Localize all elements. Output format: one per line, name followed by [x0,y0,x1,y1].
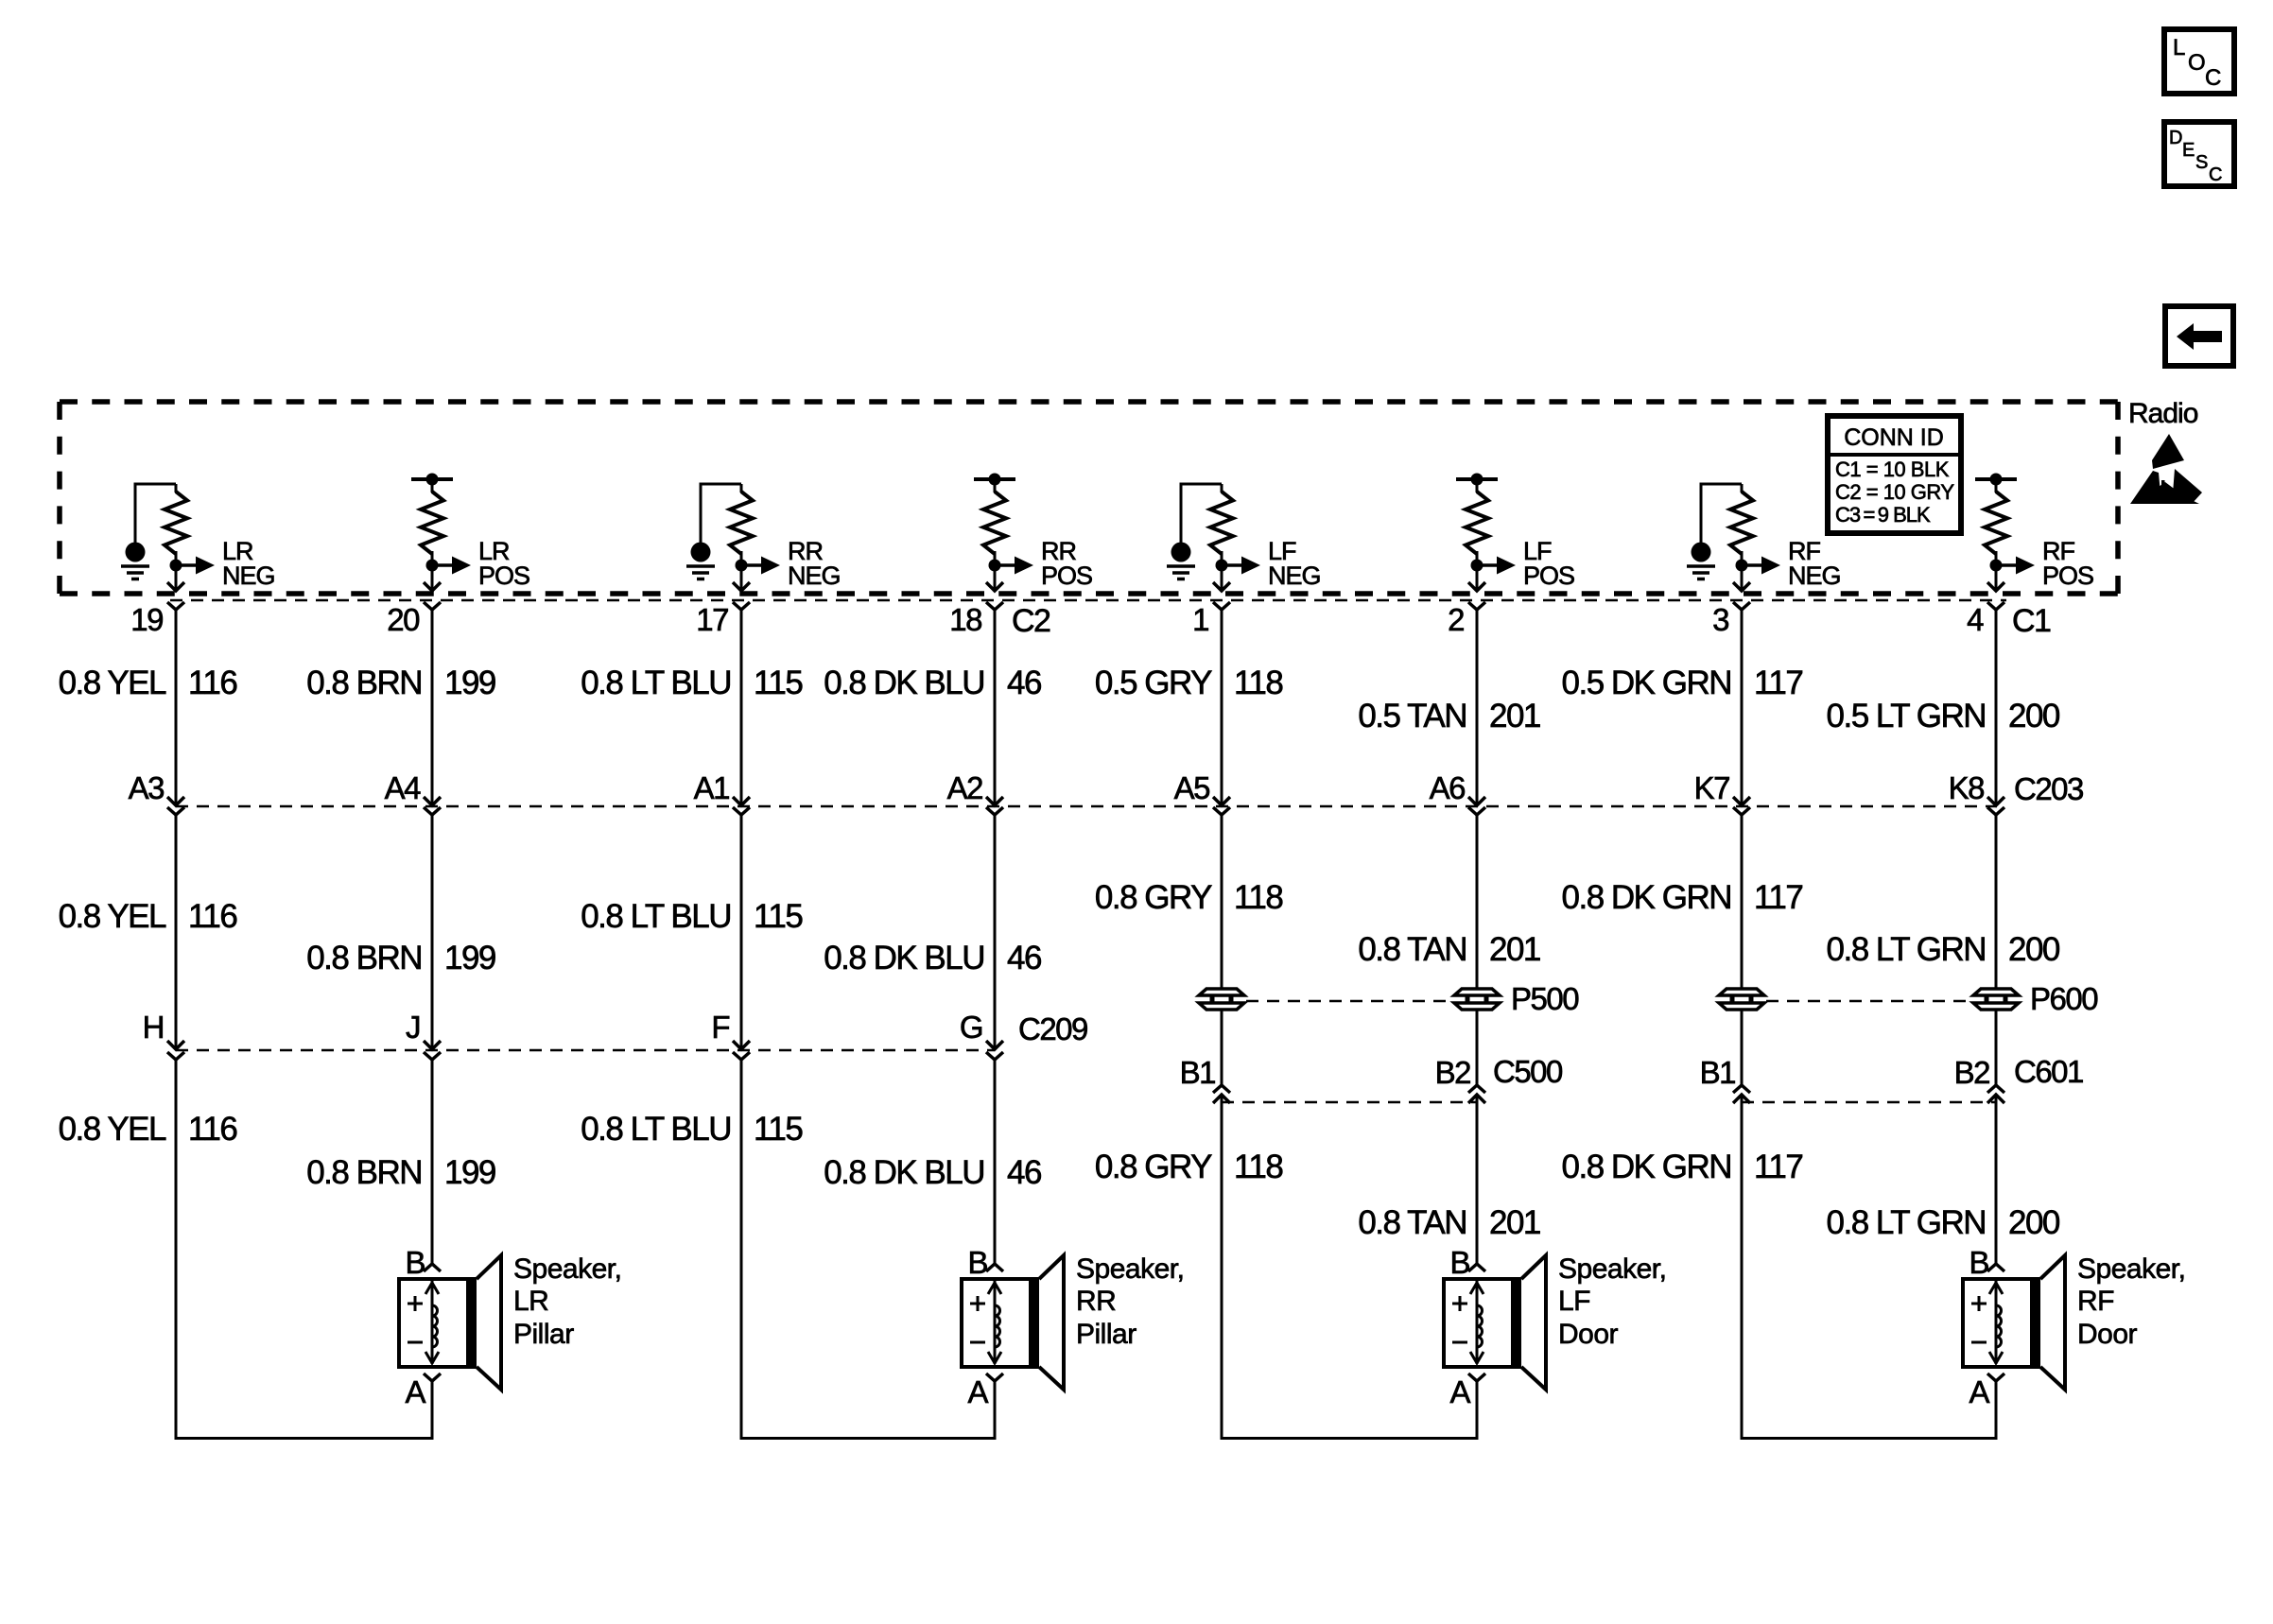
svg-text:A1: A1 [694,770,730,805]
C203 crossing pin A2 [986,797,1003,805]
svg-text:116: 116 [188,898,236,935]
junction dot LR POS [426,560,439,572]
svg-text:L: L [2173,35,2185,60]
svg-text:17: 17 [696,602,728,637]
svg-text:0.8 BRN: 0.8 BRN [306,665,422,701]
ground symbol (LR NEG) [121,484,176,579]
connector line C601 (thin dashed) [1742,1101,1996,1104]
C203 crossing pin A6 [1468,797,1485,805]
resistor LF POS (radio internal) [1466,492,1488,554]
wire segment circuit 118 (radio to C203) [1221,610,1223,804]
svg-text:Door: Door [2077,1319,2138,1350]
inline connector barrel on circuit 201 [1454,989,1500,1010]
wire segment circuit 199 (C203 to C209) [431,815,434,1047]
wire segment circuit 117 (C500/C601 to speaker) [1741,1095,1744,1440]
svg-text:B: B [967,1245,987,1280]
svg-text:0.8 YEL: 0.8 YEL [59,665,166,701]
resistor LF NEG (radio internal) [1210,492,1233,554]
resistor RR POS (radio internal) [983,492,1006,554]
svg-text:2: 2 [1448,602,1464,637]
svg-text:A6: A6 [1430,770,1466,805]
svg-text:200: 200 [2008,698,2060,734]
svg-text:C2 = 10 GRY: C2 = 10 GRY [1835,480,1954,504]
svg-text:B1: B1 [1180,1055,1216,1090]
wire segment circuit 118 (C500/C601 to speaker) [1221,1095,1223,1440]
svg-text:H: H [143,1010,164,1045]
svg-text:46: 46 [1007,665,1041,701]
svg-text:B: B [405,1245,425,1280]
resistor RR NEG (radio internal) [730,492,753,554]
svg-text:C2: C2 [1012,603,1050,639]
signal arrow LR POS [432,563,454,567]
C209 crossing pin H [167,1041,184,1049]
svg-text:0.5 DK GRN: 0.5 DK GRN [1562,665,1732,701]
resistor RF POS (radio internal) [1985,492,2007,554]
wire segment circuit 201 (radio to C203) [1476,610,1479,804]
svg-text:1: 1 [1192,602,1208,637]
wire segment circuit 46 (radio to C203) [994,610,997,804]
svg-text:RF: RF [2077,1286,2114,1317]
svg-text:0.8 DK BLU: 0.8 DK BLU [824,940,984,976]
svg-text:C500: C500 [1493,1054,1563,1089]
Radio component dashed box [60,402,2118,594]
svg-text:117: 117 [1754,879,1802,916]
connector pin 18 fork [986,602,1003,610]
resistor LR POS (radio internal) [421,492,443,554]
svg-text:Door: Door [1558,1319,1619,1350]
svg-text:0.8 DK BLU: 0.8 DK BLU [824,1154,984,1191]
signal arrow LF POS [1477,563,1499,567]
wire segment circuit 116 (C209 to speaker) [175,1060,178,1440]
speaker LF Door [1444,1245,1666,1440]
wire segment circuit 200 (C500/C601 to speaker) [1995,1095,1998,1264]
svg-text:C1 = 10 BLK: C1 = 10 BLK [1835,458,1950,481]
connector pin 3 fork [1733,602,1750,610]
svg-text:0.8 LT BLU: 0.8 LT BLU [581,665,731,701]
wire segment circuit 115 (radio to C203) [740,610,743,804]
wire segment circuit 117 (C203 to P-connector) [1741,815,1744,989]
svg-text:0.5 LT GRN: 0.5 LT GRN [1827,698,1987,734]
signal arrow RR NEG [741,563,763,567]
svg-text:B1: B1 [1700,1055,1736,1090]
svg-text:199: 199 [444,1154,495,1191]
ground symbol (RR NEG) [686,484,741,579]
return wire 115 to speaker A [741,1437,995,1439]
CONN ID table [1828,416,1961,533]
svg-text:0.5 TAN: 0.5 TAN [1358,698,1466,734]
svg-text:POS: POS [478,561,529,590]
supply rail (LF POS) [1456,477,1498,481]
connector pin 20 fork [424,602,441,610]
speaker RF Door [1963,1245,2185,1440]
svg-text:F: F [711,1010,729,1045]
svg-text:46: 46 [1007,1154,1041,1191]
svg-text:E: E [2182,140,2195,161]
svg-text:A2: A2 [947,770,983,805]
connector pin 2 fork [1468,602,1485,610]
svg-text:A4: A4 [385,770,422,805]
svg-text:CONN ID: CONN ID [1844,424,1944,451]
svg-text:K8: K8 [1949,770,1985,805]
svg-text:116: 116 [188,1111,236,1148]
svg-text:201: 201 [1489,1204,1540,1241]
svg-text:D: D [2169,128,2182,148]
junction dot LF NEG [1216,560,1228,572]
wire RF NEG to pin 3 [1741,571,1744,590]
return wire 117 to speaker A [1742,1437,1996,1439]
svg-text:18: 18 [949,602,981,637]
svg-text:Pillar: Pillar [513,1319,574,1350]
svg-text:0.8 GRY: 0.8 GRY [1095,1149,1212,1185]
C203 crossing pin A5 [1213,797,1230,805]
svg-text:3: 3 [1712,602,1728,637]
svg-text:0.8 DK GRN: 0.8 DK GRN [1562,1149,1732,1185]
svg-text:NEG: NEG [1788,561,1841,590]
wire segment circuit 199 (C209 to speaker) [431,1060,434,1264]
svg-text:199: 199 [444,665,495,701]
svg-text:C: C [2209,164,2222,185]
svg-text:117: 117 [1754,665,1802,701]
wire segment circuit 117 (P-connector to C500/C601) [1741,1010,1744,1085]
svg-text:C3 = 9 BLK: C3 = 9 BLK [1835,503,1931,527]
svg-text:0.8 DK BLU: 0.8 DK BLU [824,665,984,701]
svg-text:G: G [960,1010,982,1045]
svg-text:0.8 LT GRN: 0.8 LT GRN [1827,931,1987,968]
svg-text:POS: POS [1041,561,1092,590]
svg-text:J: J [406,1010,420,1045]
connector pin 17 fork [733,602,750,610]
C209 crossing pin F [733,1041,750,1049]
svg-text:C209: C209 [1018,1011,1087,1046]
svg-text:LR: LR [513,1286,548,1317]
svg-text:Speaker,: Speaker, [1558,1253,1666,1285]
C500/C601 crossing pin B2 [1468,1085,1485,1093]
svg-text:Speaker,: Speaker, [2077,1253,2185,1285]
signal arrow LR NEG [176,563,198,567]
svg-text:200: 200 [2008,931,2060,968]
wire segment circuit 201 (P-connector to C500/C601) [1476,1010,1479,1085]
DESC legend box [2164,122,2234,186]
signal arrow RF NEG [1742,563,1763,567]
wire segment circuit 199 (radio to C203) [431,610,434,804]
C209 crossing pin J [424,1041,441,1049]
svg-text:4: 4 [1967,602,1984,637]
svg-text:200: 200 [2008,1204,2060,1241]
svg-text:0.8 BRN: 0.8 BRN [306,940,422,976]
svg-text:A: A [1449,1374,1470,1409]
svg-text:B: B [1449,1245,1469,1280]
connector pin 19 fork [167,602,184,610]
C203 crossing pin A4 [424,797,441,805]
wire segment circuit 201 (C500/C601 to speaker) [1476,1095,1479,1264]
svg-text:C1: C1 [2012,603,2051,639]
wire segment circuit 200 (P-connector to C500/C601) [1995,1010,1998,1085]
svg-text:0.8 GRY: 0.8 GRY [1095,879,1212,916]
svg-text:Pillar: Pillar [1076,1319,1136,1350]
wire segment circuit 118 (P-connector to C500/C601) [1221,1010,1223,1085]
C500/C601 crossing pin B1 [1733,1085,1750,1093]
svg-text:A3: A3 [129,770,165,805]
inline connector P600 dashed tie [1766,1000,1971,1003]
ground symbol (RF NEG) [1687,484,1742,579]
svg-text:0.8 YEL: 0.8 YEL [59,1111,166,1148]
svg-text:RR: RR [1076,1286,1116,1317]
svg-text:NEG: NEG [788,561,841,590]
supply rail (LR POS) [411,477,453,481]
junction dot LF POS [1471,560,1484,572]
svg-text:Radio: Radio [2128,398,2198,429]
connector line C203 (thin dashed) [176,805,1997,808]
svg-text:0.8 LT BLU: 0.8 LT BLU [581,898,731,935]
svg-text:115: 115 [754,898,802,935]
C209 crossing pin G [986,1041,1003,1049]
junction dot LR NEG [170,560,182,572]
resistor RF NEG (radio internal) [1730,492,1753,554]
connector pin 1 fork [1213,602,1230,610]
svg-text:0.8 LT BLU: 0.8 LT BLU [581,1111,731,1148]
junction dot RF NEG [1736,560,1748,572]
supply rail (RR POS) [974,477,1015,481]
svg-text:NEG: NEG [1268,561,1321,590]
signal arrow RR POS [995,563,1016,567]
C500/C601 crossing pin B2 [1987,1085,2004,1093]
svg-text:118: 118 [1234,1149,1282,1185]
wire RR NEG to pin 17 [740,571,743,590]
wire LR NEG to pin 19 [175,571,178,590]
svg-text:115: 115 [754,1111,802,1148]
wire segment circuit 117 (radio to C203) [1741,610,1744,804]
supply rail (RF POS) [1975,477,2017,481]
svg-text:Speaker,: Speaker, [513,1253,621,1285]
inline connector barrel on circuit 200 [1973,989,2019,1010]
svg-text:C601: C601 [2014,1054,2083,1089]
svg-text:A: A [1969,1374,1989,1409]
svg-text:0.8 LT GRN: 0.8 LT GRN [1827,1204,1987,1241]
C203 crossing pin A3 [167,797,184,805]
svg-text:B: B [1969,1245,1988,1280]
wire segment circuit 46 (C209 to speaker) [994,1060,997,1264]
svg-text:B2: B2 [1954,1055,1990,1090]
svg-text:K7: K7 [1694,770,1730,805]
svg-text:C203: C203 [2014,771,2083,806]
speaker LR Pillar [399,1245,621,1440]
svg-text:46: 46 [1007,940,1041,976]
C203 crossing pin K8 [1987,797,2004,805]
inline connector barrel on circuit 118 [1199,989,1244,1010]
svg-text:0.8 TAN: 0.8 TAN [1358,1204,1466,1241]
resistor LR NEG (radio internal) [165,492,187,554]
svg-text:C: C [2205,65,2221,91]
svg-text:201: 201 [1489,931,1540,968]
wire segment circuit 200 (radio to C203) [1995,610,1998,804]
wire segment circuit 116 (C203 to C209) [175,815,178,1047]
svg-text:Speaker,: Speaker, [1076,1253,1184,1285]
svg-text:P500: P500 [1511,981,1579,1016]
svg-text:O: O [2188,50,2206,76]
svg-text:POS: POS [1523,561,1574,590]
wire RR POS to pin 18 [994,571,997,590]
return wire 118 to speaker A [1222,1437,1477,1439]
svg-text:B2: B2 [1435,1055,1471,1090]
back-arrow navigation box [2165,306,2233,366]
junction dot RR NEG [736,560,748,572]
svg-text:0.8 TAN: 0.8 TAN [1358,931,1466,968]
speaker RR Pillar [962,1245,1184,1440]
return wire 116 to speaker A [176,1437,432,1439]
junction dot RR POS [989,560,1001,572]
signal arrow LF NEG [1222,563,1243,567]
wire RF POS to pin 4 [1995,571,1998,590]
inline connector P500 dashed tie [1246,1000,1452,1003]
svg-text:19: 19 [130,602,163,637]
svg-text:P600: P600 [2030,981,2098,1016]
svg-text:0.5 GRY: 0.5 GRY [1095,665,1212,701]
connector line C2/C1 (thin dashed) [170,599,2006,602]
LOC legend box [2164,29,2234,94]
wire segment circuit 201 (C203 to P-connector) [1476,815,1479,989]
C500/C601 crossing pin B1 [1213,1085,1230,1093]
svg-text:20: 20 [387,602,420,637]
svg-text:199: 199 [444,940,495,976]
C203 crossing pin A1 [733,797,750,805]
wire LR POS to pin 20 [431,571,434,590]
C203 crossing pin K7 [1733,797,1750,805]
svg-text:NEG: NEG [222,561,275,590]
connector pin 4 fork [1987,602,2004,610]
svg-text:118: 118 [1234,879,1282,916]
wire segment circuit 200 (C203 to P-connector) [1995,815,1998,989]
signal arrow RF POS [1996,563,2018,567]
wire LF NEG to pin 1 [1221,571,1223,590]
svg-text:POS: POS [2042,561,2093,590]
svg-text:A: A [405,1374,425,1409]
wire segment circuit 116 (radio to C203) [175,610,178,804]
svg-text:116: 116 [188,665,236,701]
inline connector barrel on circuit 117 [1719,989,1764,1010]
svg-text:201: 201 [1489,698,1540,734]
ESD sensitivity symbol [2130,434,2202,504]
svg-text:115: 115 [754,665,802,701]
ground symbol (LF NEG) [1167,484,1222,579]
svg-text:117: 117 [1754,1149,1802,1185]
svg-text:S: S [2195,152,2208,173]
wire segment circuit 46 (C203 to C209) [994,815,997,1047]
wire segment circuit 118 (C203 to P-connector) [1221,815,1223,989]
connector line C500 (thin dashed) [1222,1101,1477,1104]
svg-text:0.8 YEL: 0.8 YEL [59,898,166,935]
svg-text:LF: LF [1558,1286,1590,1317]
svg-text:0.8 DK GRN: 0.8 DK GRN [1562,879,1732,916]
svg-text:118: 118 [1234,665,1282,701]
svg-text:A: A [967,1374,988,1409]
svg-text:A5: A5 [1174,770,1210,805]
wire segment circuit 115 (C203 to C209) [740,815,743,1047]
junction dot RF POS [1990,560,2003,572]
connector line C209 (thin dashed) [176,1049,995,1052]
wire segment circuit 115 (C209 to speaker) [740,1060,743,1440]
svg-text:0.8 BRN: 0.8 BRN [306,1154,422,1191]
wire LF POS to pin 2 [1476,571,1479,590]
